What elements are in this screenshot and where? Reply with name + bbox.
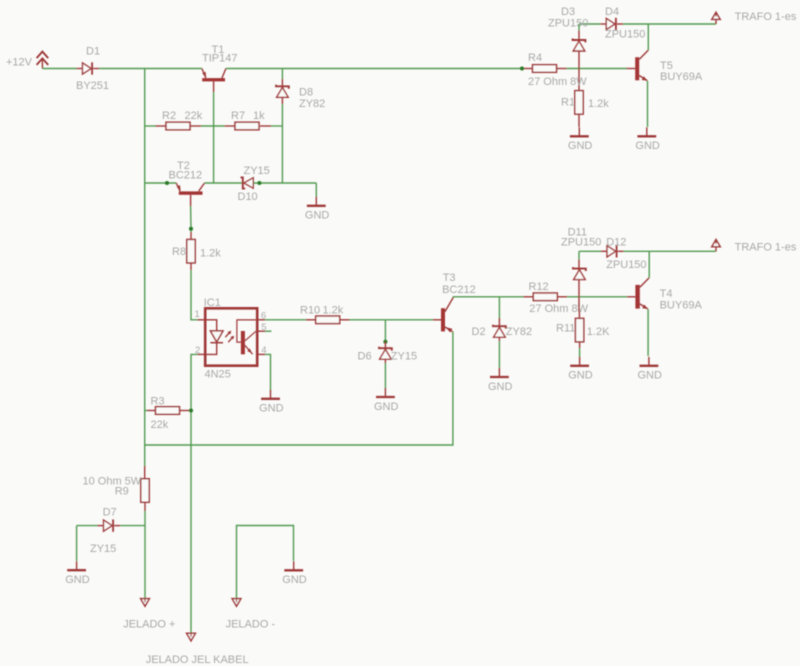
svg-text:GND: GND (568, 370, 593, 382)
svg-text:R12: R12 (529, 281, 549, 293)
svg-text:4N25: 4N25 (205, 369, 231, 381)
svg-text:JELADO -: JELADO - (226, 618, 276, 630)
svg-text:1.2k: 1.2k (200, 248, 221, 260)
svg-text:ZPU150: ZPU150 (561, 236, 601, 248)
svg-text:22k: 22k (185, 110, 203, 122)
svg-text:R8: R8 (172, 246, 186, 258)
svg-text:D1: D1 (86, 46, 100, 58)
svg-text:R4: R4 (528, 52, 542, 64)
svg-text:D7: D7 (103, 506, 117, 518)
svg-text:ZY15: ZY15 (244, 165, 270, 177)
svg-text:ZPU150: ZPU150 (606, 259, 646, 271)
svg-text:GND: GND (568, 140, 593, 152)
svg-text:JELADO +: JELADO + (123, 618, 175, 630)
svg-text:D2: D2 (472, 326, 486, 338)
svg-text:GND: GND (488, 381, 513, 393)
svg-text:10 Ohm 5W: 10 Ohm 5W (83, 476, 142, 488)
svg-text:BC212: BC212 (442, 284, 476, 296)
svg-text:GND: GND (638, 370, 663, 382)
svg-text:R1: R1 (561, 97, 575, 109)
svg-text:R10: R10 (300, 305, 320, 317)
svg-text:T3: T3 (443, 272, 456, 284)
svg-text:R9: R9 (115, 486, 129, 498)
svg-text:BUY69A: BUY69A (660, 300, 703, 312)
svg-text:R2: R2 (162, 110, 176, 122)
svg-text:D10: D10 (238, 191, 258, 203)
svg-text:22k: 22k (151, 419, 169, 431)
svg-text:ZPU150: ZPU150 (548, 18, 588, 30)
svg-text:GND: GND (65, 574, 90, 586)
svg-text:TRAFO 1-es: TRAFO 1-es (735, 11, 797, 23)
svg-text:ZPU150: ZPU150 (605, 29, 645, 41)
svg-text:ZY15: ZY15 (90, 543, 116, 555)
svg-text:R7: R7 (231, 110, 245, 122)
svg-text:GND: GND (635, 140, 660, 152)
svg-text:GND: GND (305, 210, 330, 222)
svg-text:D4: D4 (605, 6, 619, 18)
svg-text:GND: GND (282, 574, 307, 586)
svg-text:R11: R11 (556, 323, 575, 335)
svg-text:ZY82: ZY82 (506, 326, 532, 338)
svg-text:JELADO JEL KABEL: JELADO JEL KABEL (146, 654, 249, 666)
svg-text:D3: D3 (561, 6, 575, 18)
svg-text:27 Ohm 8W: 27 Ohm 8W (528, 76, 587, 88)
svg-text:D12: D12 (606, 236, 626, 248)
svg-text:BC212: BC212 (169, 170, 203, 182)
svg-text:BY251: BY251 (76, 80, 109, 92)
svg-text:ZY82: ZY82 (299, 98, 325, 110)
svg-text:TIP147: TIP147 (202, 53, 237, 65)
svg-text:BUY69A: BUY69A (660, 71, 703, 83)
svg-text:GND: GND (259, 403, 284, 415)
svg-text:1.2k: 1.2k (588, 98, 609, 110)
svg-text:D8: D8 (299, 87, 313, 99)
svg-text:ZY15: ZY15 (391, 351, 417, 363)
svg-text:T4: T4 (660, 288, 673, 300)
svg-text:R3: R3 (151, 396, 165, 408)
svg-text:TRAFO 1-es: TRAFO 1-es (735, 241, 797, 253)
svg-text:D6: D6 (358, 351, 372, 363)
svg-text:+12V: +12V (6, 57, 33, 69)
svg-text:IC1: IC1 (204, 297, 221, 309)
svg-text:1.2K: 1.2K (587, 326, 610, 338)
svg-text:GND: GND (374, 401, 399, 413)
svg-text:1.2k: 1.2k (323, 305, 344, 317)
svg-text:1: 1 (195, 309, 200, 320)
svg-text:1k: 1k (253, 110, 265, 122)
